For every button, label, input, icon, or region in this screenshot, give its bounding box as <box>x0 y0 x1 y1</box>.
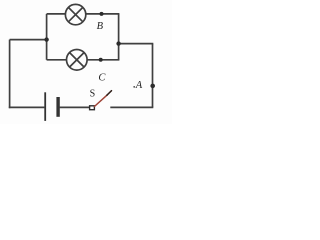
wire right outer vertical <box>152 44 154 108</box>
wire lamp B right to top-right corner <box>86 13 120 15</box>
svg-text:A: A <box>135 80 143 91</box>
wire middle-right horizontal (junction to right side) <box>119 43 154 45</box>
node C (dot on bottom branch) <box>99 58 103 62</box>
speck before A <box>133 86 135 88</box>
wire bottom-right horizontal (switch to right corner) <box>110 106 153 108</box>
node A (dot on right vertical) <box>150 84 155 89</box>
svg-text:B: B <box>97 21 104 32</box>
battery long plate (+) <box>44 92 46 121</box>
wire bottom-left horizontal (left corner to battery) <box>9 106 45 108</box>
svg-text:C: C <box>98 72 106 83</box>
wire left inner vertical (lamp B branch to lamp C branch) <box>46 14 48 60</box>
wire left middle horizontal <box>10 39 47 41</box>
svg-text:S: S <box>90 88 96 99</box>
lamp C <box>67 50 88 71</box>
wire top-left horizontal to lamp B <box>47 13 66 15</box>
node: right junction <box>116 41 120 45</box>
lamp B <box>65 4 85 24</box>
switch S pivot square <box>90 106 95 110</box>
switch S blade (open) <box>94 91 111 107</box>
wire bottom branch left horizontal to lamp C <box>47 59 67 61</box>
battery short plate (-) <box>56 97 59 117</box>
node: left junction <box>44 37 48 41</box>
wire battery to switch <box>60 106 90 108</box>
node B (dot on top branch) <box>100 12 104 16</box>
wire lamp C right to inner vertical <box>87 59 119 61</box>
wire right inner vertical (top corner to lamp C branch) <box>118 14 120 60</box>
wire left outer vertical <box>9 40 11 109</box>
